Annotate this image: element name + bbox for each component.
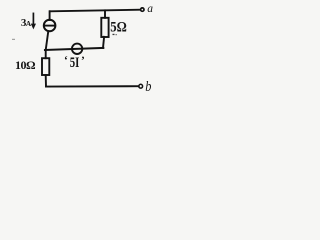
- svg-text:’: ’: [81, 55, 85, 67]
- svg-text:b: b: [145, 78, 151, 94]
- svg-text:‘: ‘: [64, 55, 68, 67]
- svg-text:10Ω: 10Ω: [15, 58, 36, 72]
- svg-text:3A: 3A: [21, 17, 32, 29]
- svg-text:5Ι: 5Ι: [70, 53, 80, 70]
- svg-text:a: a: [147, 3, 153, 15]
- svg-text:5Ω: 5Ω: [110, 20, 127, 36]
